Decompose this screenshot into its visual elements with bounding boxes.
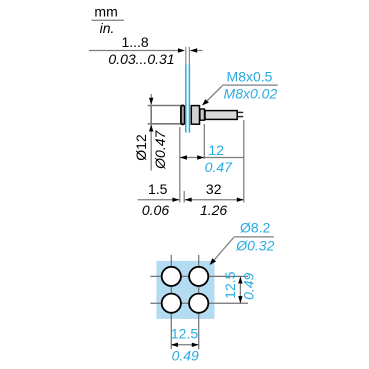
svg-text:0.49: 0.49 (241, 272, 257, 299)
svg-text:32: 32 (206, 181, 222, 197)
svg-text:M8x0.02: M8x0.02 (224, 86, 278, 102)
svg-text:Ø0.47: Ø0.47 (152, 130, 168, 170)
svg-text:1.5: 1.5 (148, 181, 168, 197)
svg-text:Ø0.32: Ø0.32 (235, 238, 274, 254)
svg-text:1...8: 1...8 (121, 34, 148, 50)
svg-text:Ø8.2: Ø8.2 (240, 220, 271, 236)
svg-text:0.03...0.31: 0.03...0.31 (108, 51, 174, 67)
svg-text:1.26: 1.26 (200, 202, 227, 218)
svg-text:12.5: 12.5 (171, 326, 198, 342)
svg-text:M8x0.5: M8x0.5 (227, 69, 273, 85)
svg-text:in.: in. (100, 20, 115, 36)
svg-text:Ø12: Ø12 (133, 134, 149, 161)
svg-text:12.5: 12.5 (222, 271, 238, 298)
svg-text:0.06: 0.06 (142, 202, 169, 218)
svg-text:0.49: 0.49 (172, 348, 199, 364)
svg-text:mm: mm (94, 4, 117, 20)
svg-text:0.47: 0.47 (205, 159, 233, 175)
svg-text:12: 12 (208, 142, 224, 158)
